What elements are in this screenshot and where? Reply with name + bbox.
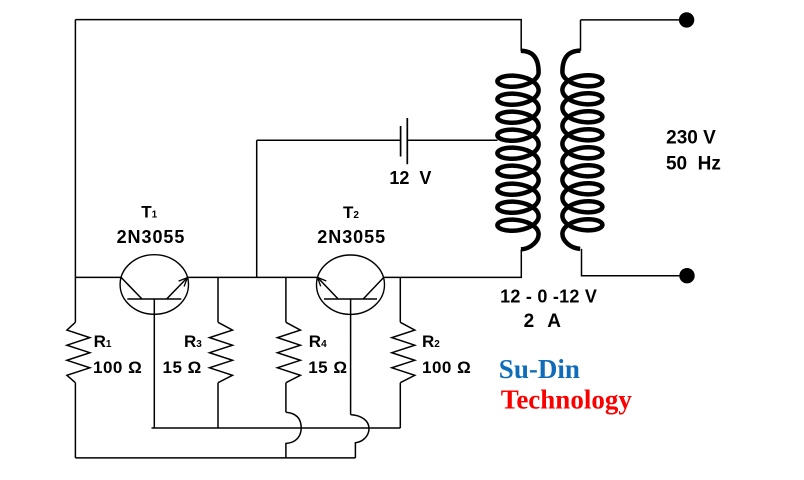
svg-text:100 Ω: 100 Ω xyxy=(422,358,471,377)
svg-text:Su-Din: Su-Din xyxy=(499,354,580,384)
svg-text:Technology: Technology xyxy=(501,385,633,415)
svg-text:2N3055: 2N3055 xyxy=(117,227,186,247)
svg-text:12 V: 12 V xyxy=(389,168,431,188)
svg-text:12 - 0 -12 V: 12 - 0 -12 V xyxy=(500,286,597,306)
svg-text:2 A: 2 A xyxy=(524,311,562,332)
svg-text:100 Ω: 100 Ω xyxy=(93,358,142,377)
svg-text:15 Ω: 15 Ω xyxy=(163,358,202,377)
svg-text:2N3055: 2N3055 xyxy=(317,227,386,247)
svg-text:15 Ω: 15 Ω xyxy=(308,358,347,377)
svg-text:50 Hz: 50 Hz xyxy=(666,154,721,175)
svg-text:230 V: 230 V xyxy=(666,128,716,149)
